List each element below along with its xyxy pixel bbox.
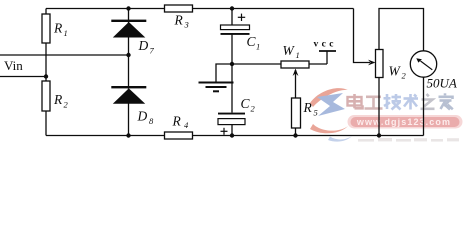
- watermark text 电工技术之家: [348, 93, 453, 109]
- svg-text:vcc: vcc: [314, 40, 337, 50]
- svg-text:R: R: [172, 114, 182, 129]
- label R3: [174, 13, 189, 30]
- potentiometer W2 wiper arrow: [368, 60, 376, 66]
- meter 50UA: [410, 51, 436, 77]
- diode D7: [111, 20, 146, 38]
- svg-text:www.dgjs123.com: www.dgjs123.com: [356, 117, 451, 127]
- svg-text:7: 7: [150, 46, 155, 56]
- resistor R4: [165, 132, 193, 139]
- node bottom rail / D8: [126, 133, 130, 137]
- svg-text:D: D: [137, 109, 148, 124]
- resistor R5: [292, 98, 301, 128]
- wire meter bottom: [423, 77, 425, 136]
- wire diode column: [128, 9, 130, 21]
- ground: [199, 83, 234, 92]
- svg-text:50UA: 50UA: [427, 76, 457, 91]
- svg-text:5: 5: [314, 108, 318, 118]
- wire mid to W1: [232, 63, 281, 65]
- node top rail / C1: [230, 6, 234, 10]
- capacitor C2: [218, 113, 245, 135]
- svg-text:1: 1: [256, 42, 260, 52]
- svg-text:R: R: [53, 92, 63, 107]
- char 术: [404, 94, 419, 110]
- svg-text:2: 2: [402, 71, 407, 81]
- label R5: [303, 100, 318, 118]
- wire left column R1-R2: [45, 9, 47, 15]
- svg-text:R: R: [53, 21, 63, 36]
- label R2: [53, 92, 69, 110]
- node bottom rail / W2: [377, 133, 381, 137]
- wire W1 wiper to R5: [295, 70, 297, 98]
- potentiometer W2 body: [376, 50, 384, 78]
- svg-text:C: C: [241, 96, 251, 111]
- wire ground tap: [216, 64, 232, 82]
- resistor R3: [165, 5, 193, 12]
- potentiometer W1 wiper arrow: [293, 69, 299, 77]
- label C1: [247, 34, 261, 52]
- node C1-C2 midpoint: [230, 62, 234, 66]
- svg-text:R: R: [174, 13, 184, 28]
- char 电: [348, 94, 363, 108]
- svg-text:1: 1: [64, 28, 68, 38]
- svg-text:C: C: [247, 34, 257, 49]
- svg-text:3: 3: [184, 20, 189, 30]
- wire rail corner down to W2 wiper: [354, 9, 371, 63]
- wire bottom rail: [46, 135, 424, 137]
- watermark logo swirl: [310, 88, 352, 142]
- label W2: [389, 64, 407, 81]
- char 工: [365, 97, 383, 109]
- svg-text:4: 4: [184, 120, 189, 130]
- wire W2 bottom: [378, 78, 380, 136]
- svg-text:D: D: [138, 38, 149, 53]
- svg-text:2: 2: [251, 104, 256, 114]
- wire top rail: [46, 8, 354, 10]
- potentiometer W1 body: [281, 61, 309, 68]
- wire W2 top loop to meter: [379, 9, 424, 52]
- node Vin / R1-R2: [44, 74, 48, 78]
- resistor R1: [42, 14, 50, 43]
- label W1: [283, 43, 300, 60]
- resistor R2: [42, 81, 50, 111]
- svg-text:R: R: [303, 100, 313, 115]
- svg-text:W: W: [389, 64, 402, 79]
- node bottom rail / C2: [230, 133, 234, 137]
- wire vin upper: [0, 54, 129, 56]
- node top rail / D7: [126, 6, 130, 10]
- label D8: [137, 109, 155, 127]
- svg-text:Vin: Vin: [4, 58, 23, 73]
- wire W1 to vcc: [309, 63, 327, 65]
- svg-text:8: 8: [149, 116, 154, 126]
- capacitor C1: [221, 14, 250, 35]
- label D7: [138, 38, 155, 56]
- label R4: [172, 114, 190, 131]
- label R1: [53, 21, 68, 39]
- label C2: [241, 96, 256, 114]
- wire vin lower: [0, 76, 46, 78]
- junction node dots: [44, 6, 381, 137]
- node D7-D8 midpoint: [126, 53, 130, 57]
- watermark pill www.dgjs123.com: [348, 115, 463, 129]
- char 技: [384, 94, 402, 110]
- svg-text:2: 2: [64, 100, 69, 110]
- circuit drawing: [0, 9, 424, 136]
- svg-text:W: W: [283, 43, 296, 58]
- wire capacitor column: [231, 9, 233, 26]
- diode D8: [111, 86, 146, 104]
- char 家: [439, 93, 453, 109]
- char 之: [421, 94, 435, 109]
- svg-text:1: 1: [296, 50, 300, 60]
- watermark ghost bottom row: [358, 138, 459, 142]
- vcc terminal bar: [319, 50, 336, 52]
- node bottom rail / R5: [293, 133, 297, 137]
